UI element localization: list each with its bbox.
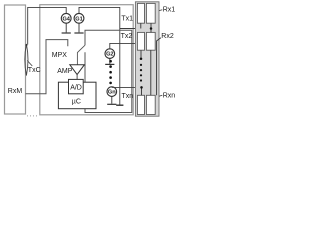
svg-text:G1: G1 [75,16,82,22]
svg-text:G2: G2 [106,52,113,58]
svg-text:AMP: AMP [57,68,72,75]
svg-text:Rx2: Rx2 [161,33,174,40]
svg-text:G4: G4 [62,16,70,22]
svg-text:RxM: RxM [8,88,23,95]
svg-text:A/D: A/D [70,85,82,92]
svg-text:Tx1: Tx1 [121,15,133,22]
svg-text:Rxn: Rxn [163,93,176,100]
svg-text:Rx1: Rx1 [163,7,176,14]
svg-text:µC: µC [72,99,81,106]
svg-text:Gn: Gn [108,90,116,96]
svg-text:Txn: Txn [122,93,134,100]
svg-text:Tx2: Tx2 [121,33,133,40]
svg-text:TxC: TxC [28,67,41,74]
svg-text:MPX: MPX [52,52,68,59]
